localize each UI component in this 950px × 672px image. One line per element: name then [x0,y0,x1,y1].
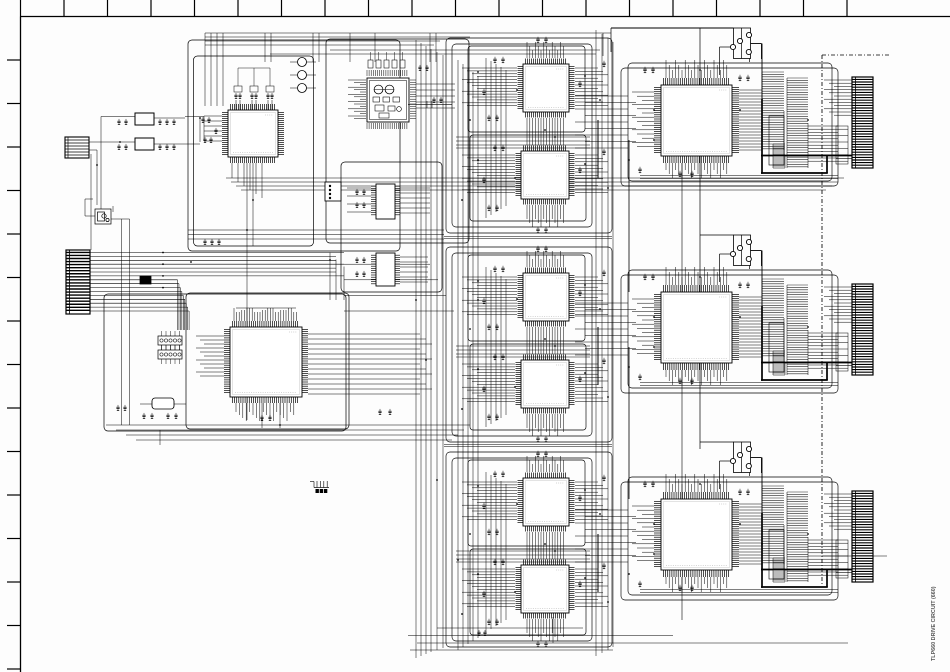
border frame top line [20,16,950,18]
wire group3 qfp vertical stubs [527,456,563,641]
filter FL2 [135,138,154,150]
bus fan group1 mini fan [773,144,785,168]
wire group2 qfp vertical stubs [527,251,563,436]
bus fan group1 column 1 [762,72,784,150]
module box lower-left [104,294,346,431]
connector group3 dense [852,491,873,582]
wire group1 big qfp right leads [739,90,762,150]
wire top bus risers [205,33,436,106]
wire group2 qfp left stubs [462,277,517,402]
wire group2 fan to connector [808,287,852,371]
wire U2 right leads to center [308,334,432,394]
wire group3 big qfp top leads [666,474,727,492]
connector J2 small [310,481,329,493]
oscillator hybrid module U3 [348,70,452,129]
IC U1 QFP [222,104,284,163]
wire group gap horizontals [444,237,612,447]
module box oscillator outer [326,39,469,243]
wire group1 big qfp top leads [666,60,727,78]
IC group1 QFP a [518,59,575,118]
module box group1 qfp-a [468,46,585,132]
wire group2 mid horizontals [456,346,590,357]
wire group2 big qfp left leads [632,299,654,354]
IC U2 QFP [224,321,308,403]
IC U4 SOP16 [371,184,400,219]
svg-text:TLP660 DRIVE CIRCUIT (660): TLP660 DRIVE CIRCUIT (660) [931,586,937,661]
wire U2 left leads [196,336,224,376]
module box group1 qfp-b [470,135,586,221]
module box group2 outer [452,253,592,436]
bus fan group2 column 1 [762,279,784,357]
wire U2 bottom leads [236,403,294,428]
IC group1 QFP b [516,146,575,205]
pullup resistor packs above U1 [234,68,274,92]
caps left of U4 [355,189,358,195]
wire group1 inner verticals [486,58,506,218]
IC group2 QFP a [518,268,575,327]
module box group3 outer [452,458,592,641]
IC group3 big QFP [654,492,739,577]
wire U1 left leads [185,116,222,141]
wire right rail verticals [596,30,613,656]
wire group3 fan to connector [808,494,852,578]
wire group3 big qfp bottom leads [666,577,727,592]
module box group3 outer2 [446,452,612,647]
wire group2 right module bottom [640,383,838,386]
module box group3 right [628,477,832,595]
small header J1 [325,182,341,201]
wire center vertical bus B [458,60,478,650]
module box group2 qfp-a [468,255,585,341]
module box upper-left outer [188,40,400,251]
caps left of U1 [203,239,206,245]
wire group3 right module bottom [640,590,838,593]
bus fan group3 column 1 [762,486,784,564]
capacitors around FL2 [117,144,120,150]
connector group2 dense [852,284,873,375]
wire group3 inner verticals [486,472,506,632]
connector CN2 [66,250,90,314]
box around fan group3 [769,530,784,579]
caps group1 [493,57,496,63]
module box group3 right outer [621,482,838,600]
wire group3 qfp left stubs [462,482,517,607]
caps bottom center [477,630,480,636]
wire U1 bottom leads [232,163,262,246]
module box group1 right [628,63,832,181]
caps group3 [493,471,496,477]
module box group3 qfp-b [470,549,586,635]
caps group3 big qfp [643,481,646,487]
border ticks left [7,60,21,669]
wires below U1 module [188,163,444,420]
wires below lower-left module [106,425,470,445]
border ticks top [21,0,848,17]
thick bus group2 [598,306,852,385]
capacitors around FL1 [117,119,120,125]
wires transistor clusters [700,28,762,513]
bus fan group2 column 2 [787,285,808,375]
resistors above oscillator [368,52,405,68]
IC group2 QFP b [516,355,575,414]
module box group3 qfp-a [468,460,585,546]
wire group1 qfp left stubs [462,68,517,193]
caps left of U5 [355,257,358,263]
wire group3 interconnect [575,510,636,562]
thick bus group1 [598,99,852,178]
dash-dot module boundary [822,55,889,585]
box around fan group1 [769,116,784,165]
wire group1 right module bottom [640,176,838,179]
bus fan group3 mini fan [773,558,785,582]
bus fan group2 mini fan [773,351,785,375]
module box lower-left inner [186,293,349,429]
wire group2 big qfp bottom leads [666,370,727,385]
wire bottom horizontals [408,617,848,650]
crystal X1 block [85,199,130,425]
wire group2 big qfp right leads [739,297,762,357]
module box SOP area [341,162,442,292]
wire group2 inner verticals [486,267,506,427]
wires FL1 [101,117,185,210]
module box group1 outer [452,44,592,227]
caps group2 big qfp [643,274,646,280]
bus junction black mark [140,276,151,284]
transistors right of U1 [290,58,316,93]
wire long mid horizontals [226,178,844,190]
IC group3 QFP a [518,473,575,532]
bus fan group1 column 2 [787,78,808,168]
transistor cluster T1 [720,28,762,75]
wire group3 qfp right stubs [575,482,608,606]
wire CN2 bus [90,253,454,312]
wire group2 qfp right stubs [575,277,608,401]
wire center vertical bus A [416,40,443,658]
wire group2 big qfp top leads [666,267,727,285]
caps right of oscillator [418,65,421,71]
wire group1 fan to connector [808,80,852,164]
wire top horizontal bus [205,28,734,56]
wire group1 big qfp left leads [632,92,654,147]
wire group3 big qfp right leads [739,504,762,564]
IC U5 SOP16 [371,253,400,286]
module box group2 right [628,270,832,388]
caps group1 big qfp [643,67,646,73]
wire group3 big qfp left leads [632,506,654,561]
border frame left line [20,17,22,672]
wire group1 big qfp bottom leads [666,163,727,178]
connector group1 dense [852,77,873,168]
resistor network RN1 [158,331,182,364]
wire right column crossing verticals [629,28,700,620]
wire group1 qfp vertical stubs [527,42,563,227]
module box group1 right outer [621,68,838,186]
wire group1 interconnect [575,96,636,148]
module box group1 outer2 [446,38,612,233]
wires oscillator to right [416,84,455,108]
module box upper-left [194,56,314,246]
wire group1 qfp right stubs [575,68,608,192]
thick bus group3 [598,513,852,592]
connector CN1 [65,137,89,158]
module box group2 qfp-b [470,344,586,430]
wire CN2 bus risers [162,252,344,330]
wire U1 top cap stems [236,100,272,110]
IC group3 QFP b [516,560,575,619]
caps group2 [493,266,496,272]
caps in lower-left module [116,405,119,411]
oscillator Y1 [140,398,186,409]
capacitors above U1 [234,93,237,99]
transistor cluster T3 [720,442,762,489]
wires FL2 [154,143,200,145]
IC group2 big QFP [654,285,739,370]
wires U5 [400,257,428,282]
module box group2 outer2 [446,247,612,442]
wires U4 [347,188,430,213]
wire group2 interconnect [575,303,636,355]
box around fan group2 [769,323,784,372]
wire U2 top leads [234,308,296,321]
caps below Y1 [142,413,145,419]
wire group1 mid horizontals [456,137,590,148]
bus fan group3 column 2 [787,492,808,582]
module box group2 right outer [621,275,838,393]
filter FL1 [135,113,154,125]
transistor cluster T2 [720,235,762,282]
wire group3 mid horizontals [456,551,590,562]
IC group1 big QFP [654,78,739,163]
wire CN1 leads [89,118,200,250]
